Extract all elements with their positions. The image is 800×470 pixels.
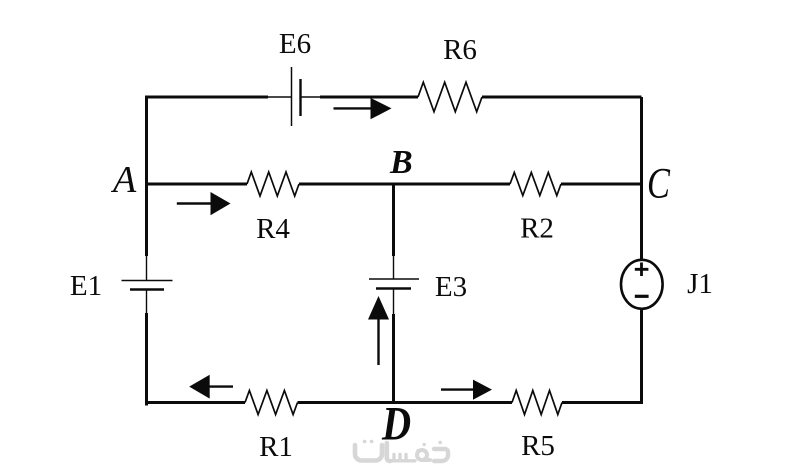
wire right vertical lower — [640, 309, 643, 404]
current arrow bottom-left head (left) — [189, 375, 210, 399]
J1 plus sign — [635, 263, 649, 277]
battery E6 short plate — [299, 79, 301, 116]
svg-text:R2: R2 — [520, 213, 554, 245]
current arrow E3 head (up) — [368, 296, 389, 320]
wire middle vertical upper (node B down) — [392, 184, 395, 256]
resistor R6 — [418, 82, 482, 112]
wire top-right segment — [482, 96, 642, 99]
wire A to R4 — [145, 183, 247, 186]
wire thin lead out of E6 — [301, 96, 322, 98]
wire R2 to node C — [561, 183, 642, 186]
battery E3 short plate — [376, 287, 411, 289]
current arrow bottom-right shaft — [441, 388, 474, 390]
battery E1 short plate — [130, 288, 164, 290]
svg-text:E1: E1 — [70, 270, 102, 302]
svg-text:E3: E3 — [435, 271, 467, 303]
current arrow A-B shaft — [177, 202, 212, 204]
resistor R4 — [247, 172, 299, 196]
battery E6 long plate — [291, 67, 293, 126]
wire R4 to R2 through node B — [299, 183, 510, 186]
battery E1 long plate — [122, 280, 173, 282]
wire thin lead into E3 — [393, 256, 395, 280]
resistor R2 — [510, 173, 561, 196]
svg-text:E6: E6 — [279, 28, 311, 60]
current arrow I6 shaft — [334, 107, 373, 109]
wire bottom-right segment — [562, 401, 642, 404]
current source J1 circle — [621, 260, 663, 309]
svg-text:J1: J1 — [687, 268, 713, 300]
wire bottom middle segment — [298, 401, 513, 404]
wire left vertical upper — [145, 97, 148, 256]
wire top middle segment — [320, 96, 418, 99]
svg-text:R4: R4 — [256, 213, 290, 245]
watermark khamsat logo — [355, 442, 448, 462]
wire bottom-left segment — [145, 401, 245, 404]
wire right vertical upper — [640, 97, 643, 260]
svg-text:R1: R1 — [259, 431, 293, 463]
battery E3 long plate — [369, 278, 419, 280]
svg-text:C: C — [647, 160, 671, 207]
svg-text:A: A — [110, 159, 137, 201]
wire middle vertical lower — [392, 314, 395, 403]
wire thin lead into E6 — [268, 96, 291, 98]
wire thin lead out of E1 — [146, 290, 148, 314]
wire left vertical lower — [147, 313, 149, 404]
svg-text:B: B — [389, 144, 413, 181]
wire thin lead into E1 — [146, 256, 148, 281]
current arrow E3 shaft — [377, 319, 379, 365]
wire thin lead out of E3 — [393, 289, 395, 315]
current arrow bottom-left shaft — [209, 385, 233, 387]
svg-text:R5: R5 — [521, 430, 555, 462]
svg-text:R6: R6 — [443, 34, 477, 66]
wire top-left segment — [147, 96, 269, 98]
current arrow A-B head — [211, 192, 231, 215]
resistor R1 — [245, 391, 298, 415]
resistor R5 — [512, 391, 562, 415]
J1 minus sign — [635, 295, 649, 298]
current arrow I6 head — [371, 98, 392, 119]
current arrow bottom-right head (right) — [473, 380, 492, 400]
